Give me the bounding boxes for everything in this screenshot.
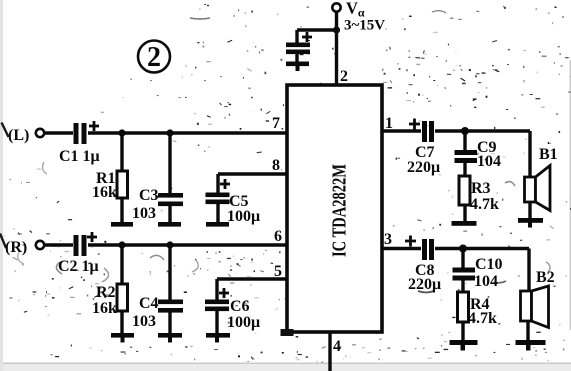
svg-text:104: 104 bbox=[477, 153, 501, 170]
svg-text:4: 4 bbox=[333, 338, 341, 355]
node junction R/C4 bbox=[166, 241, 173, 248]
svg-text:C2 1μ: C2 1μ bbox=[58, 258, 99, 275]
svg-text:103: 103 bbox=[132, 205, 156, 222]
speaker B2 bbox=[521, 286, 549, 328]
ground C4 bbox=[158, 333, 182, 343]
svg-text:(R): (R) bbox=[5, 239, 27, 256]
svg-text:1: 1 bbox=[385, 115, 393, 132]
svg-text:R2: R2 bbox=[96, 284, 116, 301]
speaker B1 bbox=[525, 166, 551, 211]
ground R3 bbox=[452, 221, 477, 226]
svg-text:100μ: 100μ bbox=[227, 208, 260, 225]
svg-text:C4: C4 bbox=[139, 295, 159, 312]
wire C3 branch bbox=[168, 133, 171, 196]
capacitor C1 plus bbox=[89, 121, 99, 131]
capacitor C2 plates bbox=[74, 235, 87, 256]
capacitor Vcc filter plates bbox=[286, 43, 310, 55]
wire Vcc vertical pin2 bbox=[335, 12, 338, 86]
svg-text:C10: C10 bbox=[475, 256, 503, 273]
svg-text:100μ: 100μ bbox=[227, 314, 260, 331]
svg-text:C3: C3 bbox=[139, 187, 159, 204]
svg-text:16k: 16k bbox=[92, 300, 117, 317]
capacitor C2 plus bbox=[87, 232, 97, 242]
wire C4 branch bbox=[168, 245, 171, 300]
ground R4 bbox=[450, 340, 478, 351]
svg-text:103: 103 bbox=[132, 313, 156, 330]
svg-text:16k: 16k bbox=[92, 184, 117, 201]
capacitor C6 plus bbox=[219, 288, 229, 298]
wire R2 branch bbox=[120, 245, 123, 284]
wire pin4 down bbox=[328, 332, 331, 371]
svg-text:B1: B1 bbox=[539, 146, 558, 163]
svg-text:104: 104 bbox=[474, 273, 498, 290]
node junction Vcc bbox=[333, 26, 340, 33]
resistor R3 body bbox=[459, 176, 470, 205]
wire R input row pin6 bbox=[45, 243, 73, 246]
wire pin5 to C6 bbox=[217, 277, 287, 280]
wire C10 R4 branch bbox=[461, 249, 464, 269]
wire B2 to ground bbox=[526, 321, 529, 341]
capacitor C5 plates bbox=[206, 193, 230, 205]
capacitor C6 plates bbox=[205, 300, 229, 312]
ground C6 bbox=[206, 333, 230, 343]
wire B1 to ground bbox=[528, 202, 531, 219]
wire Vcc branch to filter cap bbox=[297, 28, 337, 31]
capacitor C8 plates bbox=[422, 239, 434, 260]
svg-text:IC TDA2822M: IC TDA2822M bbox=[330, 164, 351, 257]
svg-text:2: 2 bbox=[147, 42, 161, 73]
svg-text:2: 2 bbox=[340, 68, 348, 85]
svg-text:(L): (L) bbox=[8, 127, 29, 144]
svg-text:R3: R3 bbox=[471, 180, 491, 197]
capacitor C1 plates bbox=[74, 123, 87, 144]
ground Vcc cap bbox=[286, 62, 309, 72]
wire pin8 to C5 bbox=[218, 172, 287, 175]
svg-text:7: 7 bbox=[272, 115, 280, 132]
wire pin1 row bbox=[382, 129, 421, 132]
resistor R1 body bbox=[117, 171, 128, 198]
capacitor C3 plates bbox=[158, 193, 183, 206]
capacitor C5 plus bbox=[220, 179, 230, 189]
capacitor C9 plates bbox=[455, 150, 478, 163]
svg-text:3: 3 bbox=[384, 231, 392, 248]
IC U1 TDA2822M body bbox=[287, 85, 382, 332]
svg-text:C6: C6 bbox=[230, 298, 250, 315]
node junction R/R2 bbox=[118, 241, 125, 248]
ground B1 bbox=[518, 218, 543, 228]
capacitor C4 plates bbox=[158, 300, 183, 313]
terminal input L bbox=[36, 129, 44, 137]
svg-text:220μ: 220μ bbox=[407, 159, 440, 176]
ground C3 bbox=[158, 222, 181, 227]
capacitor Vcc filter plus bbox=[302, 32, 312, 42]
svg-text:5: 5 bbox=[274, 263, 282, 280]
svg-text:C1 1μ: C1 1μ bbox=[59, 148, 100, 165]
ground C5 bbox=[206, 222, 229, 227]
node junction pin1/C9 bbox=[461, 127, 469, 135]
wire down to speaker B2 bbox=[527, 249, 530, 292]
svg-text:4.7k: 4.7k bbox=[470, 196, 499, 213]
circled number 2 bbox=[138, 41, 170, 74]
node junction L/C3 bbox=[166, 129, 173, 136]
svg-text:8: 8 bbox=[272, 157, 280, 174]
ground R2 bbox=[111, 333, 134, 343]
node junction pin3/C10 bbox=[459, 245, 467, 253]
terminal Vcc bbox=[332, 3, 340, 11]
resistor R4 body bbox=[458, 292, 469, 322]
resistor R2 body bbox=[117, 284, 128, 311]
wire R1 branch bbox=[120, 133, 123, 171]
capacitor C7 plus bbox=[409, 119, 420, 130]
wire pin3 row bbox=[382, 247, 421, 250]
ground B2 bbox=[516, 340, 546, 351]
svg-text:3~15V: 3~15V bbox=[344, 18, 385, 34]
svg-text:6: 6 bbox=[274, 228, 282, 245]
wire L input row pin7 bbox=[45, 131, 73, 134]
svg-text:220μ: 220μ bbox=[408, 276, 441, 293]
wire C9 R3 branch bbox=[463, 131, 466, 150]
wire down to speaker B1 bbox=[528, 131, 531, 177]
terminal input R bbox=[36, 241, 44, 249]
svg-text:4.7k: 4.7k bbox=[468, 310, 497, 327]
ground R1 bbox=[111, 222, 133, 227]
svg-text:B2: B2 bbox=[536, 269, 555, 286]
node junction L/R1 bbox=[118, 129, 125, 136]
capacitor C7 plates bbox=[422, 121, 434, 142]
capacitor C8 plus bbox=[405, 236, 416, 247]
capacitor C10 plates bbox=[453, 268, 476, 281]
